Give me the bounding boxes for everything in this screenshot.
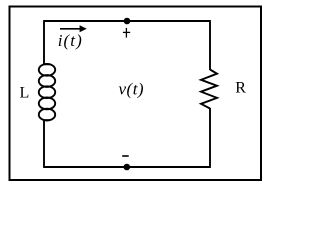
border frame	[10, 7, 262, 181]
svg-text:L: L	[20, 84, 30, 101]
svg-text:v(t): v(t)	[119, 80, 145, 99]
minus sign	[122, 155, 129, 157]
wire top	[44, 20, 210, 22]
wire bottom	[44, 166, 210, 168]
wire left upper	[43, 20, 45, 64]
wire left lower	[43, 121, 45, 168]
node dot top	[124, 18, 131, 25]
svg-text:i(t): i(t)	[58, 31, 83, 50]
inductor L coil	[39, 64, 55, 121]
wire right upper	[209, 20, 211, 70]
node dot bottom	[124, 164, 131, 171]
svg-text:R: R	[235, 80, 246, 97]
wire right lower	[209, 108, 211, 168]
plus sign	[123, 28, 130, 38]
resistor R zigzag	[201, 70, 217, 109]
current arrow	[60, 28, 81, 30]
